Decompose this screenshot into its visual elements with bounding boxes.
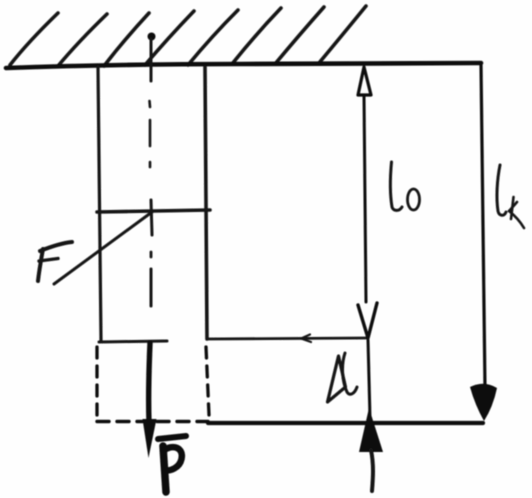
axis solid segment [150,39,153,81]
force P arrowhead [143,419,157,458]
dashed extension bottom edge [97,420,208,423]
rod left edge [98,67,101,341]
rod cross-section line [97,210,210,212]
ceiling hatch 3 [104,13,149,66]
delta-l up arrowhead [359,408,383,452]
rod-bottom extension line to l0 [207,338,367,339]
ceiling hatch 1 [10,13,58,65]
ceiling hatch 7 [275,7,324,64]
force P arrow shaft [149,343,150,423]
ceiling hatch 4 [145,11,194,65]
F leader line [54,212,152,284]
label lk [497,165,506,215]
label F [40,242,72,251]
ceiling line [6,63,481,68]
rod right edge [205,67,207,339]
axis dot [148,33,156,41]
ceiling hatch 6 [232,8,281,64]
dimension l0 top open arrowhead [358,67,371,95]
ceiling hatch 2 [58,14,107,66]
dashed extension right edge [206,347,209,415]
ceiling hatch 5 [188,10,238,65]
dimension delta-l line [368,340,370,418]
label delta-l [328,356,346,402]
dimension lk line [481,65,485,388]
bottom reference line [208,421,483,425]
dimension l0 bottom open arrowhead [358,303,377,338]
dashed extension left edge [95,347,98,419]
delta-l arrow tail [371,450,373,491]
small left arrow on extension line [301,335,311,343]
lk filled arrowhead [470,384,497,421]
axis dash-dot segments [148,101,151,107]
label P [163,446,166,492]
label l0 [390,162,402,210]
dimension l0 line [364,96,366,302]
ceiling hatch 8 [319,6,366,63]
label P overbar [158,436,186,439]
rod bottom edge [99,341,167,342]
